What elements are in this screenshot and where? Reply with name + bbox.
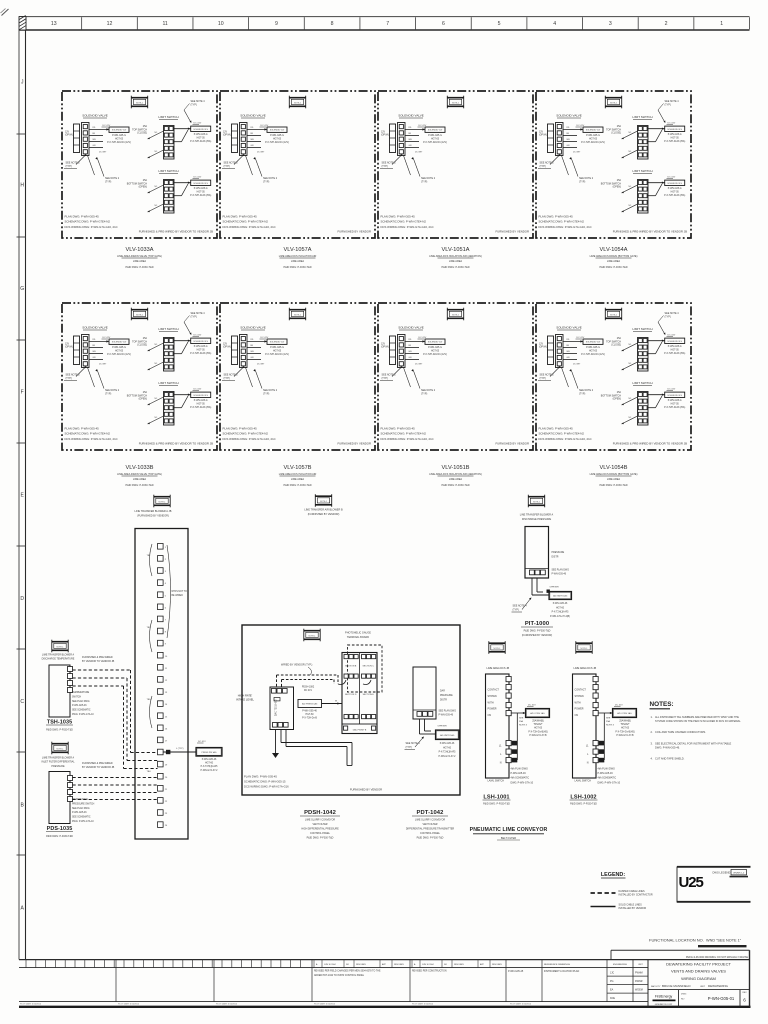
svg-text:G: G (20, 286, 24, 292)
svg-text:P-X-T2H-Dx-B (25A): P-X-T2H-Dx-B (25A) (190, 406, 211, 409)
svg-text:POWER: POWER (488, 708, 497, 711)
solenoid valve sub-circuit of VLV-1054A (538, 114, 605, 184)
pressure switch PDS-1035 enclosure (49, 772, 70, 824)
svg-text:P-X-T2H-Dx-B (25A): P-X-T2H-Dx-B (25A) (664, 406, 685, 409)
svg-text:DISCHARGE TEMPERATURE: DISCHARGE TEMPERATURE (42, 658, 75, 661)
svg-text:(OPVA): (OPVA) (381, 134, 389, 137)
svg-text:DIFFERENTIAL PRESSURE TRANSMIT: DIFFERENTIAL PRESSURE TRANSMITTER (406, 828, 455, 831)
svg-text:LIME AREA: LIME AREA (133, 260, 147, 263)
svg-text:WND “SEE NOTE 1”: WND “SEE NOTE 1” (706, 939, 742, 943)
svg-text:P-X-T2H-Dx-B(H5): P-X-T2H-Dx-B(H5) (615, 731, 635, 733)
svg-text:3: 3 (609, 21, 612, 27)
svg-text:VLV-1057B: VLV-1057B (284, 465, 312, 471)
svg-text:(TYP): (TYP) (540, 165, 546, 168)
svg-text:P-WN-G05-G: P-WN-G05-G (112, 135, 126, 137)
svg-text:DCS WIRING DWG: P-WN-G7A-G16,: DCS WIRING DWG: P-WN-G7A-G16, 21C (65, 437, 118, 441)
terminal squares of LSH-1002 (593, 677, 598, 682)
svg-text:(CLOSE): (CLOSE) (611, 132, 621, 135)
svg-text:DC GRY: DC GRY (573, 152, 581, 154)
svg-text:WIRED BY VENDOR (TYP.): WIRED BY VENDOR (TYP.) (281, 664, 312, 667)
svg-text:HGT-05: HGT-05 (197, 404, 206, 406)
terminal squares of LSH-1001 (506, 677, 511, 682)
svg-text:PRESSURE SWITCH: PRESSURE SWITCH (72, 803, 95, 805)
svg-text:DWG: DWG (681, 994, 687, 996)
svg-text:HGT-05: HGT-05 (671, 404, 680, 406)
svg-text:LIME AREA: LIME AREA (449, 478, 463, 481)
svg-text:(TYP): (TYP) (579, 392, 585, 395)
svg-text:SEE: SEE (606, 718, 611, 720)
svg-text:SOLENOID VLV: SOLENOID VLV (112, 130, 127, 132)
svg-text:PLOT DATE: 6/10/2004: PLOT DATE: 6/10/2004 (510, 1003, 532, 1006)
svg-text:HGT-05: HGT-05 (671, 350, 680, 352)
svg-text:LIME AREA DRAIN VALVE (TOP GAT: LIME AREA DRAIN VALVE (TOP GATE) (117, 255, 162, 258)
svg-text:SOLENOID VLV: SOLENOID VLV (667, 341, 682, 343)
svg-text:CONTACT: CONTACT (575, 689, 587, 692)
svg-text:P-WN-G05-G: P-WN-G05-G (194, 346, 208, 348)
svg-text:(TYP): (TYP) (191, 103, 197, 106)
svg-text:PRESSURE: PRESSURE (51, 765, 65, 768)
svg-text:P-X-T2H-D2-K01 (12V): P-X-T2H-D2-K01 (12V) (423, 354, 447, 356)
svg-text:SOLENOID VALVE: SOLENOID VALVE (240, 326, 266, 330)
instrument tag for VLV-1033A (131, 96, 148, 109)
instrument tag for VLV-1051B (447, 308, 464, 321)
svg-text:P-WN-G05-46: P-WN-G05-46 (552, 574, 567, 576)
svg-text:BRUCE MANSFIELD: BRUCE MANSFIELD (662, 984, 691, 988)
svg-text:PDSH-1042: PDSH-1042 (304, 810, 336, 816)
svg-text:VLV-1054A: VLV-1054A (600, 247, 628, 253)
svg-text:7: 7 (386, 21, 389, 27)
svg-text:SYSTEM CODE SHOWN ON THE P&ID: SYSTEM CODE SHOWN ON THE P&ID IS INCLUDE… (655, 720, 741, 723)
valve package VLV-1057A: dashed vendor boundary (220, 91, 375, 238)
svg-text:PLOT DATE: 6/10/2004: PLOT DATE: 6/10/2004 (314, 1003, 336, 1006)
svg-text:(TYP): (TYP) (224, 165, 230, 168)
svg-text:(TYP): (TYP) (579, 180, 585, 183)
svg-text:(OPVA): (OPVA) (65, 134, 73, 137)
svg-text:DWG: P-WN-G7A-10: DWG: P-WN-G7A-10 (511, 781, 534, 784)
svg-text:P-WN-G05-G: P-WN-G05-G (194, 400, 208, 402)
svg-text:REV DATE: REV DATE (356, 963, 367, 966)
svg-text:12V: 12V (223, 132, 228, 134)
svg-text:H: H (20, 183, 24, 189)
svg-text:LINE TRANSFER AIR BLOWER B: LINE TRANSFER AIR BLOWER B (304, 509, 343, 512)
svg-text:(TYP): (TYP) (421, 180, 427, 183)
top limit switch of VLV-1054B (606, 327, 685, 371)
svg-text:2.: 2. (651, 730, 653, 734)
svg-text:KDE: KDE (610, 997, 615, 1000)
svg-text:LAVAL SWITCH: LAVAL SWITCH (575, 780, 592, 783)
svg-text:LIME AREA DCS ISOLATION AIR: LIME AREA DCS ISOLATION AIR (279, 255, 317, 258)
svg-text:NOTE-1: NOTE-1 (294, 102, 301, 104)
svg-text:PG: PG (610, 980, 614, 983)
svg-text:LIME AREA DCS ISOLATION AIR: LIME AREA DCS ISOLATION AIR (279, 473, 317, 476)
svg-text:(OPVA): (OPVA) (223, 134, 231, 137)
solenoid valve sub-circuit of VLV-1054B (538, 326, 605, 396)
wires of LSH-1002 (598, 712, 612, 714)
svg-text:HGT-05: HGT-05 (431, 350, 440, 352)
svg-text:FURNISHED & PRE-WIRED BY VENDO: FURNISHED & PRE-WIRED BY VENDOR TO VENDO… (613, 442, 687, 446)
svg-text:DC 41V: DC 41V (194, 123, 202, 125)
valve package VLV-1057B: dashed vendor boundary (220, 303, 375, 450)
svg-text:SWITCH: SWITCH (72, 696, 81, 698)
svg-text:LIME AREA: LIME AREA (607, 260, 621, 263)
svg-text:P-WN-G05-G: P-WN-G05-G (668, 346, 682, 348)
svg-text:SCHEMATIC DWG: P-WN-G7E4-N2: SCHEMATIC DWG: P-WN-G7E4-N2 (223, 220, 269, 224)
vendor junction box tag (154, 495, 171, 508)
svg-text:DC 41V: DC 41V (668, 123, 676, 125)
svg-text:LIME AREA DRAIN VALVE (TOP GAT: LIME AREA DRAIN VALVE (TOP GATE) (117, 473, 162, 476)
svg-text:LINE TRANSFER BLOWER A: LINE TRANSFER BLOWER A (520, 514, 554, 517)
svg-text:P-WN-G05-G: P-WN-G05-G (586, 135, 600, 137)
svg-text:P-WN-G7A-3Y-B: P-WN-G7A-3Y-B (529, 734, 547, 737)
svg-text:3.: 3. (651, 742, 653, 746)
svg-text:NOTE-1: NOTE-1 (581, 648, 588, 650)
svg-text:6: 6 (743, 998, 746, 1003)
svg-text:A/D XMTR 1AG: A/D XMTR 1AG (553, 595, 568, 598)
group brackets (150, 544, 153, 576)
svg-text:SCHEMATIC DWG: P-WN-G05-15: SCHEMATIC DWG: P-WN-G05-15 (244, 780, 286, 784)
svg-text:FirstEnergy: FirstEnergy (655, 995, 673, 999)
valve package VLV-1054B: dashed vendor boundary (536, 303, 691, 450)
svg-text:SOLENOID VLV: SOLENOID VLV (193, 341, 208, 343)
svg-text:CONTROL PANEL: CONTROL PANEL (420, 832, 441, 835)
svg-text:PLAN DWG: P-WN-G05-45: PLAN DWG: P-WN-G05-45 (539, 215, 574, 219)
svg-text:SEE PLAN DWG: SEE PLAN DWG (72, 807, 90, 810)
svg-text:NOTE-1: NOTE-1 (320, 501, 327, 503)
svg-text:LIME AREA: LIME AREA (291, 260, 305, 263)
instrument tag for VLV-1057B (289, 308, 306, 321)
svg-text:P-X-T2H(J)A-R5: P-X-T2H(J)A-R5 (439, 751, 457, 754)
svg-text:2: 2 (665, 21, 668, 27)
svg-text:ADDED PDT-1042 TO INSTR CONTRO: ADDED PDT-1042 TO INSTR CONTROL PANEL (314, 974, 365, 977)
svg-text:25A/WH(B): 25A/WH(B) (532, 720, 544, 723)
svg-text:DWG: P-WN-G7A-10: DWG: P-WN-G7A-10 (598, 781, 621, 784)
svg-text:VLV-1051A: VLV-1051A (442, 247, 470, 253)
svg-text:DC 41V: DC 41V (194, 335, 202, 337)
svg-text:SOLENOID VLV: SOLENOID VLV (270, 342, 285, 344)
svg-text:(OPEN): (OPEN) (613, 186, 622, 189)
svg-text:JUN 10 2004: JUN 10 2004 (422, 964, 435, 966)
svg-text:COIL AND TAPE UNUSED CONDUCTOR: COIL AND TAPE UNUSED CONDUCTORS. (655, 730, 706, 734)
svg-text:P-X-T2H-Dx-B (25A): P-X-T2H-Dx-B (25A) (664, 352, 685, 355)
svg-text:SOLENOID VLV: SOLENOID VLV (193, 129, 208, 131)
svg-text:P-X-T2H-D2-K01 (12V): P-X-T2H-D2-K01 (12V) (581, 354, 605, 356)
svg-text:BELT FILTER: BELT FILTER (501, 837, 516, 840)
svg-text:P&ID DWG: P-F030-T&D: P&ID DWG: P-F030-T&D (283, 484, 311, 487)
dashed cables TSH to JB (73, 669, 131, 671)
svg-text:PLAN DWG: P-WN-G05-45: PLAN DWG: P-WN-G05-45 (223, 427, 258, 431)
svg-text:P&ID DWG: P-F030-T&D: P&ID DWG: P-F030-T&D (283, 266, 311, 269)
svg-text:(TYP): (TYP) (513, 608, 519, 611)
svg-text:LIME TRANSFER BLOWER A: LIME TRANSFER BLOWER A (42, 654, 75, 657)
svg-text:DWNR: DWNR (635, 980, 643, 983)
svg-text:REV: REV (742, 992, 747, 994)
svg-text:DC GRY: DC GRY (415, 152, 423, 154)
svg-text:SOLENOID VALVE: SOLENOID VALVE (82, 114, 108, 118)
svg-text:12: 12 (107, 21, 113, 27)
svg-text:LIME AREA: LIME AREA (449, 260, 463, 263)
legend sheet cell (731, 870, 747, 875)
panel DCS label box (298, 700, 322, 708)
blower B tag (315, 494, 332, 507)
svg-text:LIME TRANSFER BLOWER A: LIME TRANSFER BLOWER A (42, 757, 75, 760)
svg-text:PRESSURE: PRESSURE (440, 695, 453, 697)
svg-text:NOTE-1: NOTE-1 (533, 501, 540, 503)
svg-text:HGT-05: HGT-05 (197, 192, 206, 194)
svg-text:BE WIRED: BE WIRED (172, 595, 184, 597)
svg-text:P-WN-G05-G: P-WN-G05-G (428, 135, 442, 137)
svg-text:P&ID DWG: P-F030-T&D: P&ID DWG: P-F030-T&D (307, 837, 334, 840)
wire from label box to board (322, 703, 343, 705)
instrument tag for VLV-1054A (605, 96, 622, 109)
panel bottom wiring (275, 730, 277, 751)
svg-text:P-WN-G05-46: P-WN-G05-46 (511, 772, 527, 775)
svg-text:LIME AREA: LIME AREA (133, 478, 147, 481)
svg-text:(TYP): (TYP) (224, 377, 230, 380)
instrument tag for VLV-1054B (605, 308, 622, 321)
svg-text:DWG: P-WN-G7A-10: DWG: P-WN-G7A-10 (72, 820, 94, 823)
svg-text:DC GRY: DC GRY (257, 364, 265, 366)
svg-text:FUNCTIONAL LOCATION NO.: FUNCTIONAL LOCATION NO. (649, 938, 704, 943)
svg-text:HGT-05: HGT-05 (197, 138, 206, 140)
svg-text:DISTR: DISTR (552, 556, 559, 558)
svg-text:HGT-60: HGT-60 (443, 747, 452, 749)
svg-text:HIGH DIFFERENTIAL PRESSURE: HIGH DIFFERENTIAL PRESSURE (301, 828, 339, 831)
svg-text:FURNISHED & PRE-WIRED: FURNISHED & PRE-WIRED (82, 762, 113, 765)
svg-text:DC 41V: DC 41V (194, 389, 202, 391)
svg-text:FURNISHED & PRE-WIRED BY VENDO: FURNISHED & PRE-WIRED BY VENDOR TO VENDO… (613, 230, 687, 234)
bottom limit switch of VLV-1033A (127, 169, 212, 213)
svg-text:SOLENOID VALVE: SOLENOID VALVE (556, 326, 582, 330)
svg-text:(FURNISHED BY VENDOR): (FURNISHED BY VENDOR) (308, 513, 340, 516)
svg-text:(TYP): (TYP) (263, 392, 269, 395)
svg-text:(TYP): (TYP) (382, 165, 388, 168)
svg-text:P&ID DWG: P-F030-T&D: P&ID DWG: P-F030-T&D (441, 266, 469, 269)
svg-text:P&ID DWG: P-F030-T&D: P&ID DWG: P-F030-T&D (125, 484, 153, 487)
svg-text:SOLENOID VLV: SOLENOID VLV (112, 342, 127, 344)
svg-text:FURNISHED & PRE-WIRED BY VENDO: FURNISHED & PRE-WIRED BY VENDOR TO VENDO… (139, 230, 213, 234)
solenoid valve sub-circuit of VLV-1033A (64, 114, 131, 184)
solenoid valve sub-circuit of VLV-1057B (222, 326, 289, 396)
svg-text:P-X-T2H-D2-K01 (12V): P-X-T2H-D2-K01 (12V) (107, 354, 131, 356)
svg-text:DC GRY: DC GRY (257, 152, 265, 154)
svg-text:(CLOSE): (CLOSE) (611, 344, 621, 347)
svg-text:L (TYP): L (TYP) (176, 748, 184, 750)
svg-text:SCHEMATIC DWG: P-WN-G7E4-N2: SCHEMATIC DWG: P-WN-G7E4-N2 (539, 220, 585, 224)
svg-text:(FURNISHED BY VENDOR): (FURNISHED BY VENDOR) (522, 634, 552, 637)
svg-text:SEE ELECTRICAL DETAIL FOR INST: SEE ELECTRICAL DETAIL FOR INSTRUMENT WIT… (655, 742, 732, 746)
svg-text:P-WN-G05-46: P-WN-G05-46 (72, 705, 87, 707)
svg-text:HGT-05: HGT-05 (589, 138, 598, 140)
svg-text:(OPEN): (OPEN) (139, 186, 148, 189)
svg-text:HGT-05: HGT-05 (431, 138, 440, 140)
svg-text:REV DATE: REV DATE (492, 963, 503, 966)
svg-text:HGT-05: HGT-05 (621, 728, 630, 730)
svg-text:(TYP): (TYP) (66, 377, 72, 380)
dashed wiring boundary (348, 645, 383, 692)
svg-text:NO: NO (444, 964, 447, 966)
svg-text:LIMIT SWITCH: LIMIT SWITCH (632, 169, 652, 173)
svg-text:(OPVA): (OPVA) (539, 346, 547, 349)
svg-text:JJC: JJC (610, 972, 614, 975)
svg-text:12V: 12V (381, 132, 386, 134)
svg-text:DWG: P-WN-G7A-10: DWG: P-WN-G7A-10 (72, 713, 94, 716)
svg-text:(TYP): (TYP) (665, 315, 671, 318)
svg-text:LIMIT SWITCH: LIMIT SWITCH (158, 115, 178, 119)
svg-text:FURNISHED BY VENDOR: FURNISHED BY VENDOR (337, 230, 371, 234)
svg-text:WOEM: WOEM (635, 989, 643, 992)
gauge instrument box (270, 687, 294, 730)
svg-text:(OPEN): (OPEN) (139, 398, 148, 401)
svg-text:NOTE 3: NOTE 3 (606, 725, 615, 727)
svg-text:8: 8 (331, 21, 334, 27)
svg-text:FURNISHED & PRE-WIRED BY VENDO: FURNISHED & PRE-WIRED BY VENDOR TO VENDO… (139, 442, 213, 446)
svg-text:P&ID DWG: P-F030-T&D: P&ID DWG: P-F030-T&D (483, 803, 510, 806)
svg-text:A/D XMTR 1AG: A/D XMTR 1AG (440, 734, 455, 737)
wires of LSH-1001 (511, 712, 525, 714)
svg-text:P-WN-G05-46: P-WN-G05-46 (598, 772, 614, 775)
svg-text:CONTACT: CONTACT (488, 689, 500, 692)
svg-text:NOTE-1: NOTE-1 (452, 314, 459, 316)
svg-text:P&ID DWG: P-F030-T&D: P&ID DWG: P-F030-T&D (125, 266, 153, 269)
svg-text:HGT-05: HGT-05 (589, 350, 598, 352)
svg-text:DC 41V: DC 41V (194, 177, 202, 179)
svg-text:TERMINAL BOARD: TERMINAL BOARD (347, 636, 369, 639)
svg-text:(TYP): (TYP) (105, 180, 111, 183)
svg-text:ALL INSTRUMENT TAG NUMBERS ARE: ALL INSTRUMENT TAG NUMBERS ARE PREFIXED … (655, 716, 739, 719)
svg-text:SOLENOID VLV: SOLENOID VLV (193, 395, 208, 397)
svg-text:CUT AND TAPE SHIELD.: CUT AND TAPE SHIELD. (655, 757, 685, 761)
svg-text:LIME AREA: LIME AREA (607, 478, 621, 481)
DCS label box (196, 748, 222, 757)
svg-text:P-WN-G7A-3Y-2(B): P-WN-G7A-3Y-2(B) (550, 615, 570, 618)
svg-text:DCS WIRING DWG: P-WN-G7A-G16,: DCS WIRING DWG: P-WN-G7A-G16, 21C (381, 437, 434, 441)
svg-text:N: N (500, 762, 502, 765)
svg-text:NO: NO (346, 964, 349, 966)
instrument tag for VLV-1033B (131, 308, 148, 321)
svg-text:LIMIT SWITCH: LIMIT SWITCH (158, 327, 178, 331)
svg-text:NOTE-1: NOTE-1 (136, 314, 143, 316)
svg-text:P-WN-G05-G: P-WN-G05-G (112, 347, 126, 349)
svg-text:LIME AREA DCS ISOLATION AIR (A: LIME AREA DCS ISOLATION AIR (AERATION) (429, 473, 482, 476)
svg-text:P-X-T2H-Dx-B (25A): P-X-T2H-Dx-B (25A) (190, 140, 211, 143)
instrument tag above LSH-1002 (576, 641, 593, 654)
svg-text:HGT-05: HGT-05 (115, 138, 124, 140)
bottom limit switch of VLV-1054A (601, 169, 686, 213)
svg-text:(OPEN): (OPEN) (613, 398, 622, 401)
svg-text:13: 13 (51, 21, 57, 27)
svg-text:PRESSURE: PRESSURE (552, 552, 565, 554)
svg-text:LIME AREA DCS ISOLATION AIR (A: LIME AREA DCS ISOLATION AIR (AERATION) (429, 255, 482, 258)
svg-text:HGT-05: HGT-05 (671, 138, 680, 140)
svg-text:(TYP): (TYP) (540, 377, 546, 380)
svg-text:P-X-T2H-D2-K01 (12V): P-X-T2H-D2-K01 (12V) (107, 142, 131, 144)
dashed cables PDS to JB (73, 777, 158, 779)
svg-text:PDS-1035: PDS-1035 (47, 826, 73, 832)
svg-text:DCS WIRING DWG: P-WN-G7A-G16,: DCS WIRING DWG: P-WN-G7A-G16, 21C (223, 225, 276, 229)
svg-text:VLV-1051B: VLV-1051B (442, 465, 470, 471)
svg-text:VLV-1054B: VLV-1054B (600, 465, 628, 471)
svg-text:WITH: WITH (575, 701, 581, 704)
valve package VLV-1051A: dashed vendor boundary (378, 91, 533, 238)
svg-text:P-X-T2H-Dx-B(H5): P-X-T2H-Dx-B(H5) (528, 731, 548, 733)
svg-text:APP: APP (480, 963, 485, 966)
svg-text:NOTE-1: NOTE-1 (159, 501, 166, 503)
svg-text:PLAN DWG: P-WN-G05-45: PLAN DWG: P-WN-G05-45 (65, 427, 100, 431)
svg-text:A/D PRESS 1AG: A/D PRESS 1AG (302, 703, 318, 706)
svg-text:(OPVA): (OPVA) (223, 346, 231, 349)
svg-text:ON: ON (488, 714, 492, 717)
svg-text:HGT-05: HGT-05 (273, 350, 282, 352)
svg-text:LIMIT SWITCH: LIMIT SWITCH (632, 115, 652, 119)
bottom limit switch of VLV-1033B (127, 381, 212, 425)
svg-text:SOLENOID VLV: SOLENOID VLV (270, 130, 285, 132)
svg-text:P-WN-G05-46: P-WN-G05-46 (440, 743, 455, 745)
svg-text:(TYP): (TYP) (382, 377, 388, 380)
svg-text:4kA PLAN DWG: 4kA PLAN DWG (598, 768, 616, 771)
svg-text:12V: 12V (65, 344, 70, 346)
svg-text:HGT-05: HGT-05 (671, 192, 680, 194)
svg-text:TSH-1035: TSH-1035 (47, 720, 72, 726)
svg-text:NOTE-1: NOTE-1 (57, 646, 64, 648)
svg-text:P-X-T2H-Dx-B (25A): P-X-T2H-Dx-B (25A) (190, 194, 211, 197)
valve package VLV-1054A: dashed vendor boundary (536, 91, 691, 238)
svg-text:NOTE 3: NOTE 3 (519, 725, 528, 727)
svg-text:(TYP): (TYP) (421, 392, 427, 395)
svg-text:SOLENOID VLV: SOLENOID VLV (586, 342, 601, 344)
legend solid sample (591, 906, 616, 908)
svg-text:25A/WH(B): 25A/WH(B) (619, 720, 631, 723)
svg-text:DCS WIRING DWG: P-WN-G7A-G16,: DCS WIRING DWG: P-WN-G7A-G16, 21C (539, 225, 592, 229)
instrument tag PIT-1000 (528, 495, 545, 508)
solenoid valve sub-circuit of VLV-1051A (380, 114, 447, 184)
svg-text:PLAN DWG: P-WN-G05-45: PLAN DWG: P-WN-G05-45 (244, 775, 277, 779)
svg-text:DC GRY: DC GRY (573, 364, 581, 366)
svg-text:6: 6 (442, 21, 445, 27)
svg-text:4kA SCHEMATIC: 4kA SCHEMATIC (511, 777, 530, 780)
svg-text:CONTROL PANEL: CONTROL PANEL (310, 832, 331, 835)
revision header cells (313, 960, 315, 968)
svg-text:FACILITY: FACILITY (651, 985, 661, 988)
instrument tag for VLV-1057A (289, 96, 306, 109)
svg-text:NTDS NOT TO: NTDS NOT TO (172, 591, 188, 593)
svg-text:P&ID DWG: P-F030-T&D: P&ID DWG: P-F030-T&D (570, 803, 597, 806)
svg-text:SOLENOID VLV: SOLENOID VLV (428, 130, 443, 132)
svg-text:PER E-S-08-0000 DRAWING: DO NO: PER E-S-08-0000 DRAWING: DO NOT MANUALLY… (686, 956, 749, 959)
svg-text:12V: 12V (381, 344, 386, 346)
svg-text:PLAN DWG: P-WN-G05-45: PLAN DWG: P-WN-G05-45 (381, 427, 416, 431)
svg-text:TEMPERATURE: TEMPERATURE (72, 691, 90, 694)
svg-text:DC GRY: DC GRY (99, 364, 107, 366)
PDT instrument (413, 667, 436, 719)
svg-text:DAC T2019-600: DAC T2019-600 (275, 699, 278, 716)
svg-text:NOTE-1: NOTE-1 (57, 748, 64, 750)
panel tag (304, 629, 321, 642)
svg-text:SCHEMATIC DWG: P-WN-G7E4-N2: SCHEMATIC DWG: P-WN-G7E4-N2 (65, 220, 111, 224)
svg-text:DC GRY: DC GRY (99, 152, 107, 154)
svg-text:(TYP): (TYP) (263, 180, 269, 183)
svg-text:NOTE-1: NOTE-1 (452, 102, 459, 104)
control panel detail enclosure (242, 625, 460, 795)
svg-text:LAVAL SWITCH: LAVAL SWITCH (488, 780, 505, 783)
svg-text:SECTION B: SECTION B (345, 666, 357, 668)
svg-text:SCHEMATIC DWG: P-WN-G7E4-N2: SCHEMATIC DWG: P-WN-G7E4-N2 (539, 432, 585, 436)
svg-text:P&ID DWG: P-F030-T&D: P&ID DWG: P-F030-T&D (417, 837, 444, 840)
svg-text:DC 41V: DC 41V (668, 389, 676, 391)
svg-text:ON: ON (575, 714, 579, 717)
svg-text:SOLID CABLE LINES: SOLID CABLE LINES (619, 904, 643, 907)
svg-text:SOLENOID VLV: SOLENOID VLV (667, 183, 682, 185)
svg-text:LIME SLURRY CONVEYOR: LIME SLURRY CONVEYOR (415, 819, 445, 822)
